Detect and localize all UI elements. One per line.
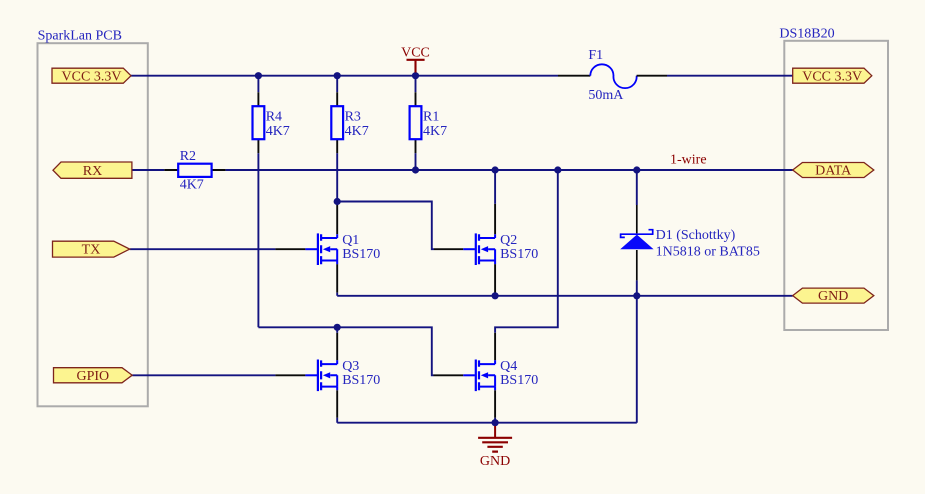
wire source rail to GND port xyxy=(337,293,793,296)
wire node A to Q2 gate xyxy=(337,202,434,250)
resistor R2 xyxy=(132,149,226,192)
svg-text:BS170: BS170 xyxy=(342,373,380,388)
transistor Q2 BS170 xyxy=(463,233,538,265)
port RX xyxy=(53,162,132,179)
junction Q2 drain/1-wire xyxy=(492,166,499,173)
junction R1/1-wire xyxy=(412,166,419,173)
svg-text:4K7: 4K7 xyxy=(180,177,204,192)
port TX xyxy=(53,241,130,258)
svg-text:R4: R4 xyxy=(266,109,282,124)
port GPIO xyxy=(54,368,133,384)
junction Q4 branch/1-wire xyxy=(554,166,561,173)
wire TX to Q1 gate xyxy=(130,248,276,250)
junction node B (Q3 drain) xyxy=(334,324,341,331)
wire R4 bottom to node B xyxy=(257,153,259,327)
svg-text:GND: GND xyxy=(480,454,510,469)
svg-text:R1: R1 xyxy=(423,109,439,124)
svg-text:VCC 3.3V: VCC 3.3V xyxy=(62,69,122,84)
wire R1 bottom to 1-wire line xyxy=(415,153,417,170)
pin Q4 source xyxy=(494,390,496,418)
wire 1-wire branch to Q4 drain xyxy=(495,170,558,333)
sheet symbol box SparkLan PCB xyxy=(38,29,148,407)
svg-text:DS18B20: DS18B20 xyxy=(779,26,834,41)
junction D1 anode rail xyxy=(633,292,640,299)
svg-text:1-wire: 1-wire xyxy=(670,153,707,168)
junction at R1 top / VCC xyxy=(412,72,419,79)
pin Q4 gate xyxy=(434,374,464,376)
wire Q2 source stub xyxy=(494,293,496,296)
port VCC 3.3V (right) xyxy=(793,68,872,84)
svg-text:50mA: 50mA xyxy=(588,88,624,103)
port DATA xyxy=(793,163,874,179)
transistor Q4 BS170 xyxy=(463,359,538,391)
pin Q2 drain xyxy=(494,204,496,234)
svg-text:R2: R2 xyxy=(180,149,196,164)
svg-text:VCC 3.3V: VCC 3.3V xyxy=(802,69,862,84)
wire VCC rail xyxy=(131,75,793,77)
junction node A (R3/Q1 drain/Q2 gate) xyxy=(334,198,341,205)
svg-text:BS170: BS170 xyxy=(500,247,538,262)
svg-text:4K7: 4K7 xyxy=(345,124,369,139)
pin Q1 gate xyxy=(275,248,305,250)
pin D1 anode xyxy=(636,250,638,280)
junction Q4 source / GND xyxy=(492,419,499,426)
wire Q2 drain to 1-wire xyxy=(494,170,496,204)
junction at R3 top xyxy=(334,72,341,79)
pin Q1 drain xyxy=(336,205,338,234)
pin Q3 source xyxy=(336,390,338,418)
junction at R4 top xyxy=(255,72,262,79)
wire GPIO to Q3 gate xyxy=(132,374,275,376)
pin Q1 source xyxy=(336,264,338,292)
wire node B run (R4 to Q4 gate) xyxy=(258,327,433,375)
svg-text:GND: GND xyxy=(818,289,848,304)
svg-text:F1: F1 xyxy=(588,48,603,63)
svg-text:SparkLan PCB: SparkLan PCB xyxy=(38,29,122,44)
transistor Q1 BS170 xyxy=(305,233,380,265)
svg-text:Q1: Q1 xyxy=(342,233,359,248)
svg-text:RX: RX xyxy=(83,164,102,179)
resistor R3 xyxy=(331,76,368,154)
wire D1 anode stub xyxy=(636,280,638,295)
wire Q1 drain to node A xyxy=(336,202,338,206)
svg-text:4K7: 4K7 xyxy=(423,124,447,139)
svg-text:BS170: BS170 xyxy=(500,373,538,388)
diode D1 Schottky xyxy=(620,228,760,260)
pin Q3 gate xyxy=(275,374,305,376)
wire 1-wire net horizontal xyxy=(226,169,793,171)
resistor R1 xyxy=(410,76,448,154)
wire R3 bottom to node A xyxy=(336,153,338,201)
wire bottom ground run xyxy=(337,418,637,423)
pin Q4 drain xyxy=(494,333,496,361)
svg-text:4K7: 4K7 xyxy=(266,124,290,139)
svg-text:R3: R3 xyxy=(345,109,361,124)
pin Q2 gate xyxy=(434,248,463,250)
resistor R4 xyxy=(253,76,290,154)
svg-text:GPIO: GPIO xyxy=(76,369,109,384)
pin Q3 drain xyxy=(336,333,338,361)
pin Q2 source xyxy=(494,264,496,292)
junction D1/1-wire xyxy=(633,166,640,173)
svg-text:TX: TX xyxy=(82,243,101,258)
svg-text:Q3: Q3 xyxy=(342,359,359,374)
port VCC 3.3V (left) xyxy=(52,68,131,84)
svg-text:Q4: Q4 xyxy=(500,359,517,374)
sheet symbol box DS18B20 xyxy=(779,26,888,330)
pin D1 cathode xyxy=(636,205,638,233)
svg-text:BS170: BS170 xyxy=(342,247,380,262)
wire D1 cathode to 1-wire xyxy=(636,170,638,205)
svg-text:D1 (Schottky): D1 (Schottky) xyxy=(656,228,736,243)
wire Q3 drain stub xyxy=(336,327,338,333)
power symbol VCC xyxy=(401,45,430,72)
svg-text:VCC: VCC xyxy=(401,45,430,60)
port GND (right) xyxy=(793,288,874,304)
svg-text:1N5818 or BAT85: 1N5818 or BAT85 xyxy=(656,245,760,260)
svg-text:Q2: Q2 xyxy=(500,233,517,248)
transistor Q3 BS170 xyxy=(305,359,380,391)
fuse F1 xyxy=(558,48,667,103)
junction Q2 source xyxy=(492,292,499,299)
svg-text:DATA: DATA xyxy=(815,164,852,179)
wire D1 anode to ground run xyxy=(636,296,638,423)
ground symbol GND xyxy=(478,426,512,469)
